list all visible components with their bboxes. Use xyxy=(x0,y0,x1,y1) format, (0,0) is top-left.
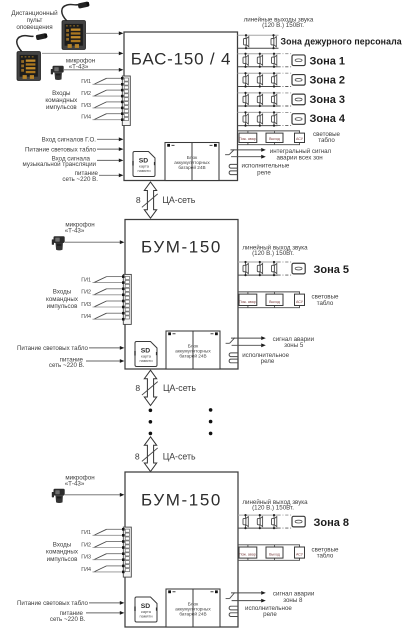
svg-text:Выход: Выход xyxy=(269,553,281,557)
svg-text:ГИ4: ГИ4 xyxy=(81,567,91,573)
label Вход сигнала музыкальной трансляции xyxy=(23,155,97,168)
light board 2 xyxy=(266,545,283,561)
continuation dots column 1 xyxy=(149,409,153,436)
wall speaker box xyxy=(292,94,305,105)
light board 3 xyxy=(295,545,305,561)
ЦА-сеть bus arrow xyxy=(144,370,156,405)
svg-text:ГИ3: ГИ3 xyxy=(81,555,91,561)
wire: zone line (-) xyxy=(238,527,278,529)
svg-text:Пож. авар.: Пож. авар. xyxy=(239,300,257,304)
light board 2 xyxy=(266,131,283,145)
light board 3 xyxy=(295,292,305,308)
svg-text:Зона 4: Зона 4 xyxy=(310,113,346,125)
wire: zone line (-) xyxy=(238,86,278,88)
battery block 24V (БАС) xyxy=(165,143,219,181)
alarm switch contact xyxy=(226,338,235,344)
terminal strip (БУМ2) xyxy=(123,527,131,577)
wire: zone line dash-dot (-) xyxy=(278,274,292,276)
label исполнительные реле (БАС) xyxy=(242,163,290,177)
loudspeaker дежурного 2 xyxy=(271,34,276,49)
label микрофон Т-43 (БАС) xyxy=(66,57,95,70)
svg-text:ГИ2: ГИ2 xyxy=(81,542,91,548)
label сигнал аварии зоны 5 xyxy=(273,336,315,349)
svg-text:Входы: Входы xyxy=(52,90,71,97)
wire: alarm signal 2 xyxy=(232,599,266,603)
wire: zone line (+) xyxy=(238,111,278,113)
wall speaker box xyxy=(292,114,305,125)
svg-text:ГИ1: ГИ1 xyxy=(81,278,91,284)
svg-text:БУМ-150: БУМ-150 xyxy=(141,491,222,510)
svg-text:памяти: памяти xyxy=(139,613,152,618)
switch ГИ3 xyxy=(81,102,121,109)
light board 3 xyxy=(295,131,305,145)
svg-text:ГИ1: ГИ1 xyxy=(81,79,91,85)
svg-text:8: 8 xyxy=(135,383,140,393)
label линейный выход звука (БУМ1) xyxy=(242,244,308,257)
svg-text:ЦА-сеть: ЦА-сеть xyxy=(162,195,195,205)
label исполнительное реле (БУМ1) xyxy=(242,352,289,365)
svg-text:Зона дежурного персонала: Зона дежурного персонала xyxy=(281,37,402,47)
switch ГИ1 xyxy=(81,78,121,85)
loudspeaker 1 xyxy=(243,72,248,88)
svg-text:Питание световых табло: Питание световых табло xyxy=(17,600,89,607)
svg-text:(120 В.) 150Вт.: (120 В.) 150Вт. xyxy=(252,250,294,257)
microphone Т-43 (БУМ2) xyxy=(52,489,65,503)
label световые табло (БАС) xyxy=(313,131,340,144)
svg-text:Зона 3: Зона 3 xyxy=(310,94,346,106)
svg-text:реле: реле xyxy=(261,358,275,365)
svg-text:Входы: Входы xyxy=(53,542,72,549)
wire: tablo return line xyxy=(238,144,301,146)
bus width slash xyxy=(142,448,158,461)
wire: zone line dash-dot (-) xyxy=(278,105,292,107)
svg-text:оповещения: оповещения xyxy=(16,24,52,31)
wire: zone line dash-dot (-) xyxy=(278,86,292,88)
wire: alarm signal 1 xyxy=(231,591,266,595)
loudspeaker 3 xyxy=(272,53,277,68)
svg-text:Выход: Выход xyxy=(269,137,281,141)
label Дистанционный пульт оповещения xyxy=(11,9,58,31)
wire: alarm signal 2 xyxy=(231,155,266,159)
terminal strip (БУМ1) xyxy=(123,274,131,324)
svg-text:импульсов: импульсов xyxy=(47,303,78,310)
wire: zone line dash-dot (-) xyxy=(278,66,292,68)
switch ГИ2 xyxy=(81,542,122,549)
svg-text:8: 8 xyxy=(135,452,140,462)
label световые табло (БУМ2) xyxy=(312,546,339,559)
light board 1 xyxy=(239,545,257,561)
svg-text:исполнительные: исполнительные xyxy=(242,163,290,170)
wire: zone line dash-dot (+) xyxy=(278,53,292,55)
remote announcement panel 1 xyxy=(62,1,90,49)
svg-text:Выход: Выход xyxy=(269,300,281,304)
loudspeaker дежурного 1 xyxy=(244,34,249,49)
svg-text:зоны 8: зоны 8 xyxy=(283,597,303,604)
svg-text:«Т-43»: «Т-43» xyxy=(65,228,85,235)
wall speaker box xyxy=(292,55,305,66)
svg-text:ГИ1: ГИ1 xyxy=(81,530,91,536)
relay contact 2 (БУМ1) xyxy=(229,359,238,363)
block БАС-150/4 xyxy=(124,32,238,181)
switch ГИ4 xyxy=(81,114,121,121)
block БУМ-150 #2 xyxy=(125,472,238,627)
svg-text:сеть ~220 В.: сеть ~220 В. xyxy=(62,176,98,183)
svg-text:зоны 5: зоны 5 xyxy=(284,342,304,349)
SD card (БАС) xyxy=(132,152,155,177)
bus width slash xyxy=(142,194,158,207)
svg-text:Зона 5: Зона 5 xyxy=(314,264,350,276)
wire: питание табло (БУМ1) xyxy=(89,346,124,350)
wire: Г.О. input xyxy=(97,137,123,141)
label световые табло (БУМ1) xyxy=(312,294,339,307)
SD card (БУМ1) xyxy=(134,342,157,367)
loudspeaker 2 xyxy=(257,111,262,126)
svg-text:командных: командных xyxy=(46,296,79,303)
svg-text:8: 8 xyxy=(136,195,141,205)
svg-text:табло: табло xyxy=(318,137,335,144)
label питание сеть ~220 В (БУМ2) xyxy=(50,610,86,623)
wire: zone line (-) xyxy=(238,274,278,276)
label интегральный сигнал аварии всех зон xyxy=(270,148,332,162)
svg-text:АСУ: АСУ xyxy=(296,553,304,557)
svg-text:Входы: Входы xyxy=(53,289,72,296)
svg-text:Питание световых табло: Питание световых табло xyxy=(17,345,89,352)
loudspeaker 2 xyxy=(257,92,262,107)
wall speaker box xyxy=(292,75,305,86)
switch ГИ1 xyxy=(81,277,122,284)
relay contact 2 (БАС) xyxy=(229,171,237,175)
svg-text:Пож. авар.: Пож. авар. xyxy=(239,137,257,141)
alarm switch contact xyxy=(226,593,235,599)
loudspeaker 3 xyxy=(272,72,277,88)
switch ГИ1 xyxy=(81,529,122,536)
svg-text:командных: командных xyxy=(46,549,79,556)
wire: zone line (+) xyxy=(238,53,278,55)
svg-text:пульт: пульт xyxy=(27,17,43,24)
ЦА-сеть bus arrow xyxy=(144,437,156,472)
relay contact 2 (БУМ2) xyxy=(229,613,238,617)
switch ГИ3 xyxy=(81,554,122,561)
svg-text:«Т-43»: «Т-43» xyxy=(65,481,85,488)
svg-text:ГИ2: ГИ2 xyxy=(81,91,91,97)
wire: zone line (-) xyxy=(238,66,278,68)
svg-text:Зона 2: Зона 2 xyxy=(310,74,346,86)
strip connection dots xyxy=(122,528,125,573)
svg-text:табло: табло xyxy=(317,300,334,307)
wall speaker box xyxy=(292,516,305,527)
terminal strip (БАС) xyxy=(122,76,130,126)
loudspeaker 2 xyxy=(257,261,262,276)
wire: tablo feed line xyxy=(238,544,300,546)
relay contact 1 (БУМ1) xyxy=(229,353,238,357)
label исполнительное реле (БУМ2) xyxy=(245,605,292,618)
label питание сеть ~220 В (БАС) xyxy=(62,170,98,183)
loudspeaker 1 xyxy=(243,53,248,68)
wire: mic to БУМ2 xyxy=(65,493,124,497)
wire: zone line dash-dot (+) xyxy=(278,261,292,263)
switch ГИ3 xyxy=(81,301,122,308)
svg-text:памяти: памяти xyxy=(137,168,150,173)
svg-text:Зона 8: Зона 8 xyxy=(314,517,350,529)
wire: сеть 220В (БАС) xyxy=(99,173,123,177)
switch ГИ2 xyxy=(81,289,122,296)
wire: tablo return line xyxy=(238,559,300,561)
svg-text:БУМ-150: БУМ-150 xyxy=(141,238,222,257)
switch ГИ4 xyxy=(81,566,122,573)
svg-text:ГИ3: ГИ3 xyxy=(81,302,91,308)
battery block 24V (БУМ2) xyxy=(166,589,220,627)
wall speaker box xyxy=(292,263,305,274)
svg-text:батарей 24В: батарей 24В xyxy=(179,352,206,358)
svg-text:Зона 1: Зона 1 xyxy=(310,56,346,68)
label Входы командных импульсов (БАС) xyxy=(45,90,78,111)
label микрофон Т-43 (БУМ2) xyxy=(65,474,95,487)
loudspeaker 1 xyxy=(243,111,248,126)
loudspeaker 3 xyxy=(272,111,277,126)
bus width slash xyxy=(142,382,158,395)
svg-text:Вход сигналов Г.О.: Вход сигналов Г.О. xyxy=(42,137,97,144)
svg-text:Пож. авар.: Пож. авар. xyxy=(239,553,257,557)
microphone Т-43 (БАС) xyxy=(51,66,64,80)
svg-text:сеть ~220 В.: сеть ~220 В. xyxy=(49,362,85,369)
wire: panel 1 to БАС xyxy=(86,31,124,35)
label питание сеть ~220 В (БУМ1) xyxy=(49,356,85,369)
svg-text:(120 В.) 150Вт.: (120 В.) 150Вт. xyxy=(262,22,304,29)
svg-text:командных: командных xyxy=(45,97,78,104)
svg-text:Питание световых табло: Питание световых табло xyxy=(25,146,97,153)
wire: zone line (+) xyxy=(238,72,278,74)
loudspeaker 3 xyxy=(272,261,277,276)
svg-text:табло: табло xyxy=(317,553,334,560)
svg-text:АСУ: АСУ xyxy=(296,137,304,141)
label линейный выход звука (БУМ2) xyxy=(242,499,308,512)
remote announcement panel 2 xyxy=(17,33,48,81)
wire: зона дежурного line (+) xyxy=(238,34,279,36)
wire: zone line (+) xyxy=(238,514,278,516)
SD card (БУМ2) xyxy=(134,597,157,622)
wire: zone line (+) xyxy=(238,92,278,94)
switch ГИ2 xyxy=(81,90,121,97)
wire: mic to БАС xyxy=(64,68,123,72)
block БУМ-150 #1 xyxy=(125,220,238,370)
ЦА-сеть bus arrow xyxy=(144,182,156,218)
svg-text:реле: реле xyxy=(263,611,277,618)
wire: alarm signal 1 xyxy=(231,336,266,340)
light board 1 xyxy=(239,292,257,308)
loudspeaker 2 xyxy=(257,72,262,88)
wire: panel 2 to БАС xyxy=(42,52,123,56)
wire: питание табло (БАС) xyxy=(97,147,123,151)
label микрофон Т-43 (БУМ1) xyxy=(65,221,95,234)
wire: zone line dash-dot (+) xyxy=(278,111,292,113)
svg-text:сеть ~220 В.: сеть ~220 В. xyxy=(50,616,86,623)
wire: сеть 220В (БУМ1) xyxy=(86,359,124,363)
wire: zone line dash-dot (-) xyxy=(278,125,292,127)
wire: zone line (-) xyxy=(238,125,278,127)
relay contact 1 (БУМ2) xyxy=(229,606,238,610)
svg-text:импульсов: импульсов xyxy=(47,556,78,563)
wire: муз. трансляция xyxy=(97,159,123,163)
wire: зона дежурного line (-) xyxy=(238,47,279,49)
wire: alarm signal 2 xyxy=(232,343,266,347)
svg-text:батарей 24В: батарей 24В xyxy=(179,610,206,616)
relay contact 1 (БАС) xyxy=(229,164,237,168)
svg-text:Дистанционный: Дистанционный xyxy=(11,9,58,17)
label Входы командных импульсов (БУМ1) xyxy=(46,289,79,310)
alarm switch contact xyxy=(225,150,234,155)
svg-text:ГИ4: ГИ4 xyxy=(81,115,91,121)
wire: сеть 220В (БУМ2) xyxy=(86,611,124,615)
wire: zone line dash-dot (+) xyxy=(278,72,292,74)
wire: alarm signal 1 xyxy=(231,148,266,152)
switch ГИ4 xyxy=(81,313,122,320)
svg-text:памяти: памяти xyxy=(139,358,152,363)
wire: tablo return line xyxy=(238,307,300,309)
svg-text:БАС-150 / 4: БАС-150 / 4 xyxy=(131,50,231,69)
loudspeaker 1 xyxy=(243,514,248,529)
wire: питание табло (БУМ2) xyxy=(89,601,124,605)
wire: zone line dash-dot (+) xyxy=(278,514,292,516)
svg-text:ЦА-сеть: ЦА-сеть xyxy=(163,383,196,393)
microphone Т-43 (БУМ1) xyxy=(52,236,65,250)
light board 2 xyxy=(266,292,283,308)
strip connection dots xyxy=(122,275,125,320)
loudspeaker 1 xyxy=(243,92,248,107)
svg-text:ЦА-сеть: ЦА-сеть xyxy=(163,452,196,462)
light board 1 xyxy=(239,131,257,145)
svg-text:ГИ4: ГИ4 xyxy=(81,314,91,320)
wire: zone line dash-dot (-) xyxy=(278,527,292,529)
battery block 24V (БУМ1) xyxy=(166,331,220,369)
svg-text:(120 В.) 150Вт.: (120 В.) 150Вт. xyxy=(252,505,294,512)
loudspeaker 3 xyxy=(272,92,277,107)
svg-text:ГИ2: ГИ2 xyxy=(81,290,91,296)
wire: zone line dash-dot (+) xyxy=(278,92,292,94)
wire: zone line (-) xyxy=(238,105,278,107)
loudspeaker 3 xyxy=(272,514,277,529)
wire: mic to БУМ1 xyxy=(65,240,124,244)
wire: tablo feed line xyxy=(238,291,300,293)
svg-text:АСУ: АСУ xyxy=(296,300,304,304)
strip connection dots xyxy=(121,77,124,121)
loudspeaker 2 xyxy=(257,514,262,529)
label линейные выходы звука xyxy=(244,16,314,29)
label сигнал аварии зоны 8 xyxy=(273,591,315,604)
svg-text:музыкальной трансляции: музыкальной трансляции xyxy=(23,161,97,168)
svg-text:импульсов: импульсов xyxy=(46,104,77,111)
svg-text:ГИ3: ГИ3 xyxy=(81,103,91,109)
svg-text:реле: реле xyxy=(257,170,271,177)
loudspeaker 2 xyxy=(257,53,262,68)
svg-text:батарей 24В: батарей 24В xyxy=(178,164,205,170)
wire: zone line (+) xyxy=(238,261,278,263)
continuation dots column 2 xyxy=(209,408,213,435)
label Входы командных импульсов (БУМ2) xyxy=(46,542,79,563)
svg-text:аварии всех зон: аварии всех зон xyxy=(277,154,323,161)
wire: tablo feed line xyxy=(238,130,301,132)
loudspeaker 1 xyxy=(243,261,248,276)
